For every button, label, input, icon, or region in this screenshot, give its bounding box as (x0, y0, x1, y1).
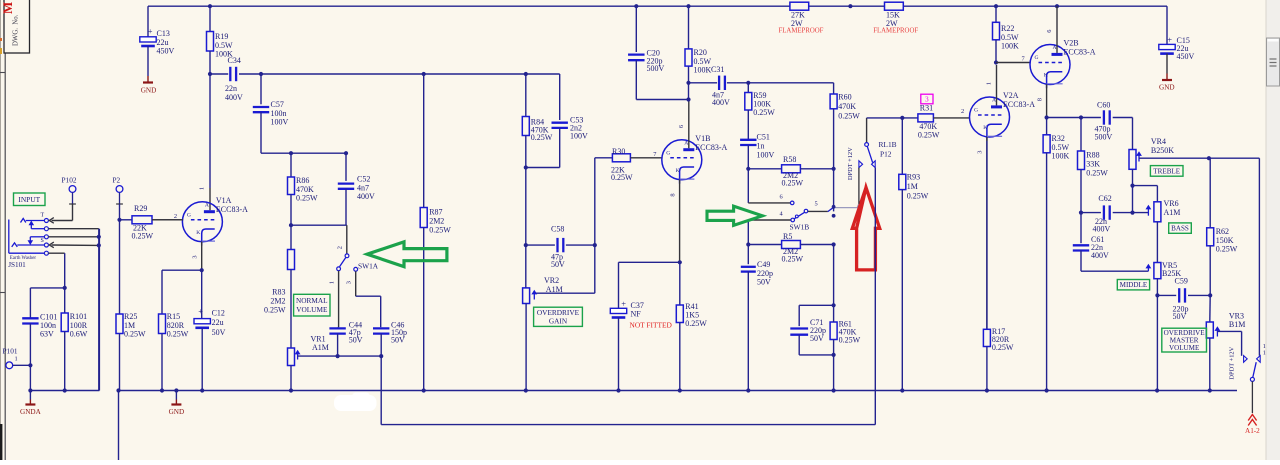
callout 3 (pink) (921, 94, 933, 104)
wire V1A cathode node (162, 268, 204, 272)
white-out smudge (334, 393, 377, 412)
svg-text:500V: 500V (647, 64, 665, 73)
svg-text:50V: 50V (551, 260, 565, 269)
window left edge strip (0, 0, 2, 460)
potentiometer VR2 (523, 276, 563, 390)
tube V2B ECC83-A (1022, 6, 1096, 117)
svg-text:V2B: V2B (1064, 39, 1079, 48)
tube V2A ECC83-A (961, 65, 1035, 329)
svg-text:G: G (187, 213, 191, 219)
switch SW1A (328, 225, 378, 284)
svg-text:63V: 63V (40, 329, 54, 338)
svg-text:A: A (1053, 45, 1057, 51)
svg-text:50V: 50V (1173, 312, 1187, 321)
wire R30 feed riser (595, 158, 613, 245)
svg-text:R58: R58 (783, 155, 796, 164)
svg-text:50V: 50V (757, 277, 771, 286)
capacitor C60 (1081, 100, 1133, 149)
svg-text:1: 1 (1263, 350, 1266, 357)
label OVERDRIVE GAIN (534, 307, 583, 326)
svg-text:100V: 100V (271, 117, 289, 126)
svg-text:P102: P102 (62, 175, 77, 184)
potentiometer VR3 (OD master volume) (1206, 295, 1245, 390)
svg-text:A: A (684, 141, 688, 147)
resistor R86 (288, 153, 319, 225)
svg-text:K: K (983, 125, 987, 131)
svg-text:SW1A: SW1A (358, 262, 379, 271)
svg-text:P2: P2 (113, 175, 121, 184)
svg-text:ECC83-A: ECC83-A (216, 205, 248, 214)
wire SW1A pin3 to C46 (356, 271, 381, 327)
wire C58 to VR2 wiper (536, 245, 595, 293)
svg-text:C58: C58 (551, 225, 564, 234)
svg-text:3: 3 (345, 281, 352, 284)
svg-text:P12: P12 (880, 150, 892, 159)
svg-text:K: K (676, 168, 680, 174)
svg-text:2: 2 (174, 213, 177, 220)
svg-text:1: 1 (986, 82, 993, 85)
svg-text:0.25W: 0.25W (992, 343, 1014, 352)
svg-text:T: T (41, 213, 45, 219)
svg-text:VR6: VR6 (1164, 199, 1179, 208)
svg-text:0.6W: 0.6W (70, 329, 88, 338)
svg-text:VOLUME: VOLUME (1169, 344, 1199, 352)
resistor 27K 2W flameproof (top bus) (779, 2, 824, 34)
wire HT supply top bus (148, 6, 1167, 44)
capacitor C51 (740, 133, 774, 203)
ground GND (main bus) (169, 391, 185, 416)
wire relay throw left (858, 168, 860, 204)
svg-text:VR2: VR2 (544, 276, 559, 285)
svg-text:0.25W: 0.25W (167, 329, 189, 338)
capacitor C15 (1159, 34, 1195, 73)
svg-text:0.25W: 0.25W (264, 306, 286, 315)
svg-text:M: M (0, 2, 15, 14)
svg-text:NORMAL: NORMAL (296, 296, 328, 305)
svg-text:50V: 50V (349, 336, 363, 345)
capacitor C46 (373, 321, 407, 391)
resistor R88 (1078, 118, 1109, 244)
svg-text:G: G (666, 151, 670, 157)
port A1-2 (1245, 381, 1260, 435)
svg-text:2: 2 (337, 246, 344, 249)
arrow green (points left at SW1A) (367, 242, 447, 267)
svg-text:6: 6 (678, 125, 685, 128)
svg-text:A1-2: A1-2 (1245, 427, 1260, 435)
svg-text:100K: 100K (1052, 151, 1070, 160)
svg-text:ECC83-A: ECC83-A (1003, 100, 1035, 109)
wire anode-rail node A (y74) (208, 72, 560, 76)
ground GNDA (20, 391, 42, 416)
svg-text:FLAMEPROOF: FLAMEPROOF (873, 28, 918, 35)
label INPUT (14, 193, 46, 206)
resistor R87 (420, 74, 451, 391)
svg-text:2M2: 2M2 (270, 297, 285, 306)
svg-text:K: K (196, 230, 200, 236)
jack JS101 tip contact (21, 213, 49, 223)
drawing sheet border line (0, 53, 5, 460)
wire R86/C52 top rail (y153) (261, 151, 348, 155)
svg-text:400V: 400V (357, 192, 375, 201)
resistor R93 (899, 118, 929, 391)
jack JS101 shorting contact lower (28, 235, 99, 244)
arrow red (points up at relay) (852, 188, 879, 270)
right scrollbar thumb (1267, 38, 1280, 86)
title block DWG. No. box (0, 0, 30, 53)
svg-text:GND: GND (169, 408, 185, 416)
svg-text:R88: R88 (1086, 151, 1099, 160)
svg-text:22u: 22u (212, 318, 224, 327)
wire main ground bus (116, 388, 1237, 460)
svg-text:C31: C31 (711, 65, 724, 74)
port P101 (3, 346, 31, 368)
svg-text:A1M: A1M (312, 343, 329, 352)
wire R84 to VR2 (524, 168, 528, 288)
svg-text:R60: R60 (838, 93, 851, 102)
wire V1B anode feed upper (686, 66, 690, 102)
svg-text:R30: R30 (612, 147, 625, 156)
resistor R61 (830, 245, 861, 391)
potentiometer VR4 (treble) (1129, 137, 1259, 187)
label BASS (1169, 223, 1192, 233)
wire lower return bus (381, 391, 875, 425)
label Earth Washer / JS101 (8, 256, 36, 269)
svg-text:P101: P101 (3, 346, 18, 355)
resistor R30 (611, 147, 662, 182)
capacitor C49 (741, 245, 773, 391)
svg-text:100V: 100V (757, 151, 775, 160)
wire treble pot to bass pot (1133, 186, 1158, 202)
svg-text:R31: R31 (920, 104, 933, 113)
svg-text:GAIN: GAIN (549, 317, 568, 326)
svg-text:0.25W: 0.25W (839, 335, 861, 344)
svg-text:33K: 33K (1086, 160, 1100, 169)
resistor R15 (159, 270, 189, 390)
svg-text:3: 3 (925, 95, 929, 104)
svg-text:FLAMEPROOF: FLAMEPROOF (779, 28, 824, 35)
capacitor C52 (338, 153, 375, 225)
potentiometer VR5 (middle) (1146, 222, 1181, 391)
svg-text:0.25W: 0.25W (1216, 244, 1238, 253)
capacitor C37 (not fitted) (610, 262, 680, 390)
resistor R60 (830, 93, 860, 212)
ground GND (C15) (1159, 74, 1175, 92)
capacitor C20 (628, 6, 688, 99)
resistor R5 (746, 220, 836, 264)
ground GND (C13) (141, 76, 157, 94)
resistor R22 (993, 6, 1020, 64)
tube V1B ECC83-A (653, 100, 727, 263)
svg-text:A: A (205, 203, 209, 209)
resistor R19 (207, 6, 234, 74)
svg-text:R29: R29 (134, 204, 147, 213)
svg-text:R83: R83 (272, 288, 285, 297)
test point P102 (62, 175, 77, 204)
wire C49 riser top (748, 210, 791, 220)
wire GNDA bus (28, 229, 99, 393)
svg-text:G: G (974, 108, 978, 114)
svg-text:0.25W: 0.25W (296, 193, 318, 202)
resistor R41 (676, 260, 707, 390)
resistor R31 (918, 104, 970, 140)
svg-text:0.25W: 0.25W (1086, 169, 1108, 178)
svg-text:R93: R93 (907, 173, 920, 182)
svg-text:INPUT: INPUT (18, 195, 40, 204)
resistor R59 (745, 83, 775, 140)
wire jack common risers (63, 229, 101, 391)
svg-text:0.25W: 0.25W (124, 329, 146, 338)
svg-text:DWG. No.: DWG. No. (13, 14, 20, 46)
svg-text:B1M: B1M (1229, 320, 1245, 329)
jack JS101 sleeve contact (9, 220, 65, 256)
wire SW1A pin1 to C44 (338, 271, 340, 327)
svg-text:DPDT +12V: DPDT +12V (1229, 346, 1236, 379)
svg-text:K: K (1044, 73, 1048, 79)
svg-text:1n: 1n (757, 142, 765, 151)
jack JS101 shorting contact upper (29, 221, 99, 230)
svg-text:22n: 22n (225, 84, 237, 93)
svg-text:C59: C59 (1175, 277, 1188, 286)
svg-text:0.25W: 0.25W (685, 319, 707, 328)
svg-text:0.25W: 0.25W (753, 108, 775, 117)
svg-text:GNDA: GNDA (20, 408, 42, 416)
potentiometer VR1 (288, 335, 338, 391)
svg-text:V1B: V1B (695, 134, 710, 143)
svg-text:6: 6 (1046, 30, 1053, 33)
svg-text:400V: 400V (712, 98, 730, 107)
capacitor C62 (1079, 194, 1149, 234)
wire relay common to R31 (867, 116, 918, 120)
svg-text:0.25W: 0.25W (429, 226, 451, 235)
svg-text:100V: 100V (570, 132, 588, 141)
svg-text:0.25W: 0.25W (531, 133, 553, 142)
svg-text:0.25W: 0.25W (782, 255, 804, 264)
svg-text:R87: R87 (429, 208, 442, 217)
capacitor C12 (194, 270, 226, 390)
svg-text:C12: C12 (212, 308, 225, 317)
wire grid-2 rail (y225) (289, 223, 347, 227)
resistor R101 (61, 288, 88, 391)
arrow green (points right at SW1B) (707, 206, 762, 225)
svg-text:3: 3 (977, 151, 984, 154)
capacitor C101 (22, 313, 57, 391)
svg-text:G: G (1035, 55, 1039, 61)
resistor R62 (1207, 156, 1238, 295)
resistor R58 (748, 155, 835, 188)
svg-text:R5: R5 (783, 232, 792, 241)
svg-text:BASS: BASS (1171, 225, 1189, 233)
wire V1A anode feed (209, 74, 211, 210)
label TREBLE (1150, 166, 1183, 177)
svg-text:0.25W: 0.25W (611, 173, 633, 182)
wire P2 to R29 (117, 204, 132, 222)
svg-text:A: A (992, 98, 996, 104)
capacitor C53 (524, 74, 588, 170)
svg-text:ECC83-A: ECC83-A (1064, 48, 1096, 57)
resistor R83 (264, 225, 295, 348)
wire R25 grid-leak drop (119, 220, 121, 314)
tube V1A ECC83-A (152, 187, 248, 270)
svg-text:0.25W: 0.25W (132, 232, 154, 241)
wire SW1B pin5 to relay (808, 204, 859, 218)
svg-text:S: S (41, 238, 44, 244)
svg-text:450V: 450V (1177, 52, 1195, 61)
wire treble bottom to C62 rail (1130, 186, 1134, 215)
svg-text:1M: 1M (907, 182, 918, 191)
svg-text:2: 2 (961, 108, 964, 115)
svg-text:ECC83-A: ECC83-A (695, 143, 727, 152)
svg-text:A1M: A1M (546, 285, 563, 294)
wire V2B grid link (996, 62, 1030, 64)
capacitor C34 (225, 56, 243, 102)
svg-text:8: 8 (669, 193, 676, 196)
svg-text:0.25W: 0.25W (838, 112, 860, 121)
svg-text:+: + (198, 306, 203, 316)
svg-text:100K: 100K (694, 65, 712, 74)
capacitor C57 (253, 74, 289, 153)
svg-text:RL1B: RL1B (879, 140, 897, 149)
wire relay throw right to lower bus (874, 168, 876, 425)
svg-text:MIDDLE: MIDDLE (1120, 281, 1148, 289)
resistor 15K 2W flameproof (top bus) (873, 2, 918, 34)
svg-text:B250K: B250K (1151, 146, 1174, 155)
svg-text:500V: 500V (1095, 133, 1113, 142)
svg-text:50V: 50V (391, 336, 405, 345)
resistor R32 (1043, 118, 1069, 391)
svg-text:A1M: A1M (1164, 208, 1181, 217)
resistor R84 (522, 74, 553, 168)
svg-text:GND: GND (141, 86, 157, 94)
svg-text:470K: 470K (919, 122, 937, 131)
capacitor C71 (790, 305, 833, 355)
capacitor C59 (1157, 277, 1212, 321)
jack JS101 ring contact (12, 238, 99, 248)
svg-text:C34: C34 (228, 56, 241, 65)
potentiometer VR6 (bass) (1146, 199, 1180, 222)
label NOT FITTED (630, 321, 673, 330)
svg-text:1: 1 (15, 356, 18, 363)
svg-text:V1A: V1A (216, 196, 232, 205)
svg-text:100K: 100K (1001, 41, 1019, 50)
node top-bus junction dots (208, 4, 1059, 8)
jack JS101 tip switch arm (49, 204, 72, 223)
svg-text:NF: NF (631, 310, 642, 319)
resistor R17 (983, 141, 1014, 391)
resistor R29 (132, 204, 183, 241)
svg-text:50V: 50V (212, 328, 226, 337)
svg-text:NOT FITTED: NOT FITTED (630, 321, 673, 330)
capacitor C58 (526, 225, 597, 269)
relay RL1B (859, 118, 897, 168)
svg-text:470K: 470K (838, 102, 856, 111)
svg-text:1: 1 (328, 281, 335, 284)
svg-text:C37: C37 (631, 301, 644, 310)
capacitor C61 (1073, 235, 1149, 271)
label MIDDLE (1117, 280, 1149, 290)
svg-text:V2A: V2A (1003, 91, 1019, 100)
svg-text:TREBLE: TREBLE (1153, 167, 1180, 175)
svg-text:+: + (148, 26, 153, 36)
svg-text:VR4: VR4 (1151, 137, 1166, 146)
svg-text:0.25W: 0.25W (907, 191, 929, 200)
svg-text:JS101: JS101 (8, 261, 26, 269)
svg-text:8: 8 (1036, 98, 1043, 101)
svg-text:1: 1 (198, 187, 205, 190)
svg-text:GND: GND (1159, 83, 1175, 91)
capacitor C31 (689, 65, 751, 107)
svg-text:5: 5 (815, 201, 818, 208)
switch SW1B pin6 (748, 193, 794, 204)
svg-text:C60: C60 (1097, 100, 1110, 109)
svg-text:2M2: 2M2 (429, 217, 444, 226)
right scrollbar track (1266, 0, 1280, 460)
svg-text:C51: C51 (757, 133, 770, 142)
svg-text:+: + (1167, 34, 1172, 44)
resistor R25 (116, 312, 146, 390)
svg-text:50V: 50V (810, 334, 824, 343)
switch DPDT output (1244, 158, 1266, 381)
svg-text:+: + (621, 299, 626, 309)
label DPDT +12V (relay) (847, 147, 854, 180)
switch SW1B (790, 201, 818, 232)
capacitor C13 (140, 26, 175, 76)
svg-text:400V: 400V (225, 93, 243, 102)
svg-text:3: 3 (192, 255, 199, 258)
wire sleeve to C101/R101 (30, 288, 64, 318)
svg-text:400V: 400V (1093, 225, 1111, 234)
wire V2B cathode node (1045, 115, 1084, 119)
svg-text:450V: 450V (157, 46, 175, 55)
wire volume wiper rail (336, 354, 384, 358)
resistor R20 (685, 6, 712, 74)
svg-text:SW1B: SW1B (790, 222, 810, 231)
svg-text:DPDT +12V: DPDT +12V (847, 147, 854, 180)
label OVERDRIVE MASTER VOLUME (1162, 328, 1207, 352)
capacitor C44 (329, 321, 362, 357)
svg-text:0.25W: 0.25W (918, 131, 940, 140)
svg-text:VOLUME: VOLUME (296, 305, 328, 314)
svg-text:6: 6 (780, 193, 783, 200)
label DPDT +12V (output) (1229, 346, 1236, 379)
svg-text:0.25W: 0.25W (782, 179, 804, 188)
wire C31 node to R60 (748, 83, 833, 94)
test point P2 (113, 175, 123, 204)
svg-text:C62: C62 (1098, 194, 1111, 203)
svg-text:400V: 400V (1091, 251, 1109, 260)
label NORMAL VOLUME (294, 294, 330, 316)
